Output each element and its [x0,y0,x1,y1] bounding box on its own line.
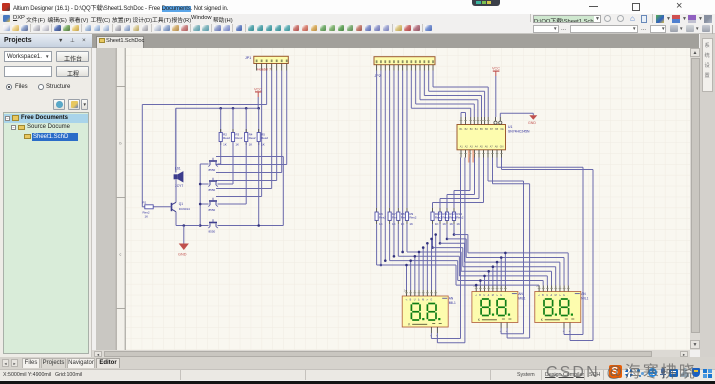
svg-text:b: b [120,141,122,145]
svg-text:M: M [555,294,557,297]
svg-text:U: U [546,294,548,297]
svg-text:SN74HC245N: SN74HC245N [508,129,530,133]
svg-text:1K: 1K [261,142,265,146]
svg-text:1K: 1K [409,221,413,225]
svg-text:GND: GND [178,252,187,256]
svg-text:MIL1: MIL1 [581,296,588,300]
svg-text:≺: ≺ [538,294,540,297]
svg-text:JP1: JP1 [245,56,251,60]
svg-text:G: G [500,294,502,297]
svg-text:VCC: VCC [254,87,262,91]
svg-text:8550: 8550 [209,188,216,192]
svg-text:R1: R1 [143,200,147,204]
svg-text:1K: 1K [456,221,460,225]
svg-text:8550: 8550 [209,208,216,212]
svg-text:1K: 1K [235,142,239,146]
svg-text:≻: ≻ [426,298,428,301]
svg-text:GND: GND [528,121,536,125]
svg-text:≺: ≺ [405,298,407,301]
svg-text:AN: AN [449,296,454,300]
svg-text:M: M [422,298,424,301]
svg-text:JP2: JP2 [375,74,381,78]
svg-text:Res2: Res2 [235,135,242,139]
svg-text:LS1: LS1 [175,166,181,170]
svg-text:Res2: Res2 [435,215,442,219]
svg-text:≺: ≺ [475,294,477,297]
svg-text:≻: ≻ [559,294,561,297]
svg-text:U: U [483,294,485,297]
svg-text:1K: 1K [249,142,253,146]
svg-text:1K: 1K [442,221,446,225]
svg-text:MIL1: MIL1 [449,301,456,305]
svg-text:M: M [492,294,494,297]
svg-text:Header 7: Header 7 [257,67,271,71]
svg-text:Res2: Res2 [261,135,268,139]
svg-text:c: c [120,252,122,256]
svg-text:Res2: Res2 [249,135,256,139]
svg-text:G: G [430,298,432,301]
svg-text:1K: 1K [145,214,149,218]
svg-text:MIL1: MIL1 [518,296,525,300]
svg-text:Q1: Q1 [179,202,183,206]
svg-text:1K: 1K [449,221,453,225]
svg-text:AN: AN [518,292,523,296]
svg-text:Res2: Res2 [223,135,230,139]
svg-text:DC9014: DC9014 [179,207,190,211]
svg-text:U: U [414,298,416,301]
svg-text:GN: GN [500,145,504,148]
svg-text:OE: OE [500,128,504,131]
svg-text:8550: 8550 [209,168,216,172]
svg-text:8550: 8550 [209,229,216,233]
svg-text:1K: 1K [435,221,439,225]
svg-text:AN: AN [581,292,586,296]
svg-text:Res2: Res2 [409,215,416,219]
svg-text:U1: U1 [508,125,512,129]
svg-text:≻: ≻ [496,294,498,297]
svg-text:1K: 1K [223,142,227,146]
svg-text:G: G [563,294,565,297]
svg-text:VCC: VCC [492,66,500,70]
